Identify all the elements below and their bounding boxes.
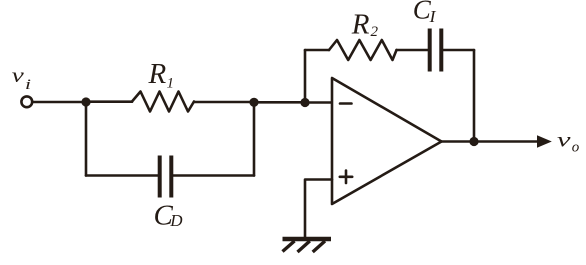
wire node C up to feedback — [304, 50, 307, 103]
op-amp plus sign — [340, 171, 352, 183]
svg-text:v: v — [557, 129, 571, 151]
wire input to node A — [33, 101, 87, 104]
label C_D — [154, 200, 184, 232]
op-amp U1 triangle — [332, 78, 442, 204]
svg-text:I: I — [428, 7, 437, 26]
label v_i — [12, 65, 31, 93]
label R1 — [148, 58, 175, 92]
resistor R1 — [132, 92, 194, 112]
wire up to node B — [253, 102, 256, 176]
wire op-amp noninverting input to ground — [305, 180, 332, 239]
input terminal — [21, 96, 32, 107]
wire R1 to node B — [194, 101, 254, 104]
wire C_D left segment — [86, 174, 158, 177]
label C_I — [413, 0, 437, 26]
op-amp minus sign — [340, 102, 352, 105]
wire R2 to C_I — [397, 49, 429, 52]
capacitor C_I — [430, 29, 442, 72]
svg-text:o: o — [572, 139, 580, 155]
wire output node to arrow — [474, 140, 539, 143]
capacitor C_D — [160, 156, 172, 198]
wire feedback top to R2 — [305, 49, 329, 52]
resistor R2 — [329, 40, 397, 60]
output arrow head — [537, 135, 552, 147]
label R2 — [351, 8, 379, 40]
wire op-amp output to node — [442, 140, 475, 143]
ground — [283, 239, 332, 252]
wire node A to R1 — [86, 100, 132, 103]
wire C_D right segment — [173, 174, 254, 177]
wire down to output node — [473, 50, 476, 142]
svg-text:R: R — [351, 8, 370, 40]
node A junction dot — [81, 97, 90, 106]
svg-text:1: 1 — [167, 75, 175, 91]
wire node C to op-amp inverting input — [305, 101, 332, 104]
svg-text:D: D — [169, 211, 183, 230]
wire node A down to C_D branch — [85, 102, 88, 176]
label v_o — [557, 129, 580, 155]
wire C_I to right corner — [443, 49, 474, 52]
svg-text:i: i — [25, 77, 31, 93]
output node junction dot — [469, 137, 478, 146]
svg-text:2: 2 — [371, 24, 379, 40]
wire node B to node C — [254, 101, 305, 104]
node C junction dot — [300, 98, 309, 107]
svg-text:v: v — [12, 65, 24, 87]
svg-text:R: R — [148, 58, 167, 90]
node B junction dot — [249, 98, 258, 107]
